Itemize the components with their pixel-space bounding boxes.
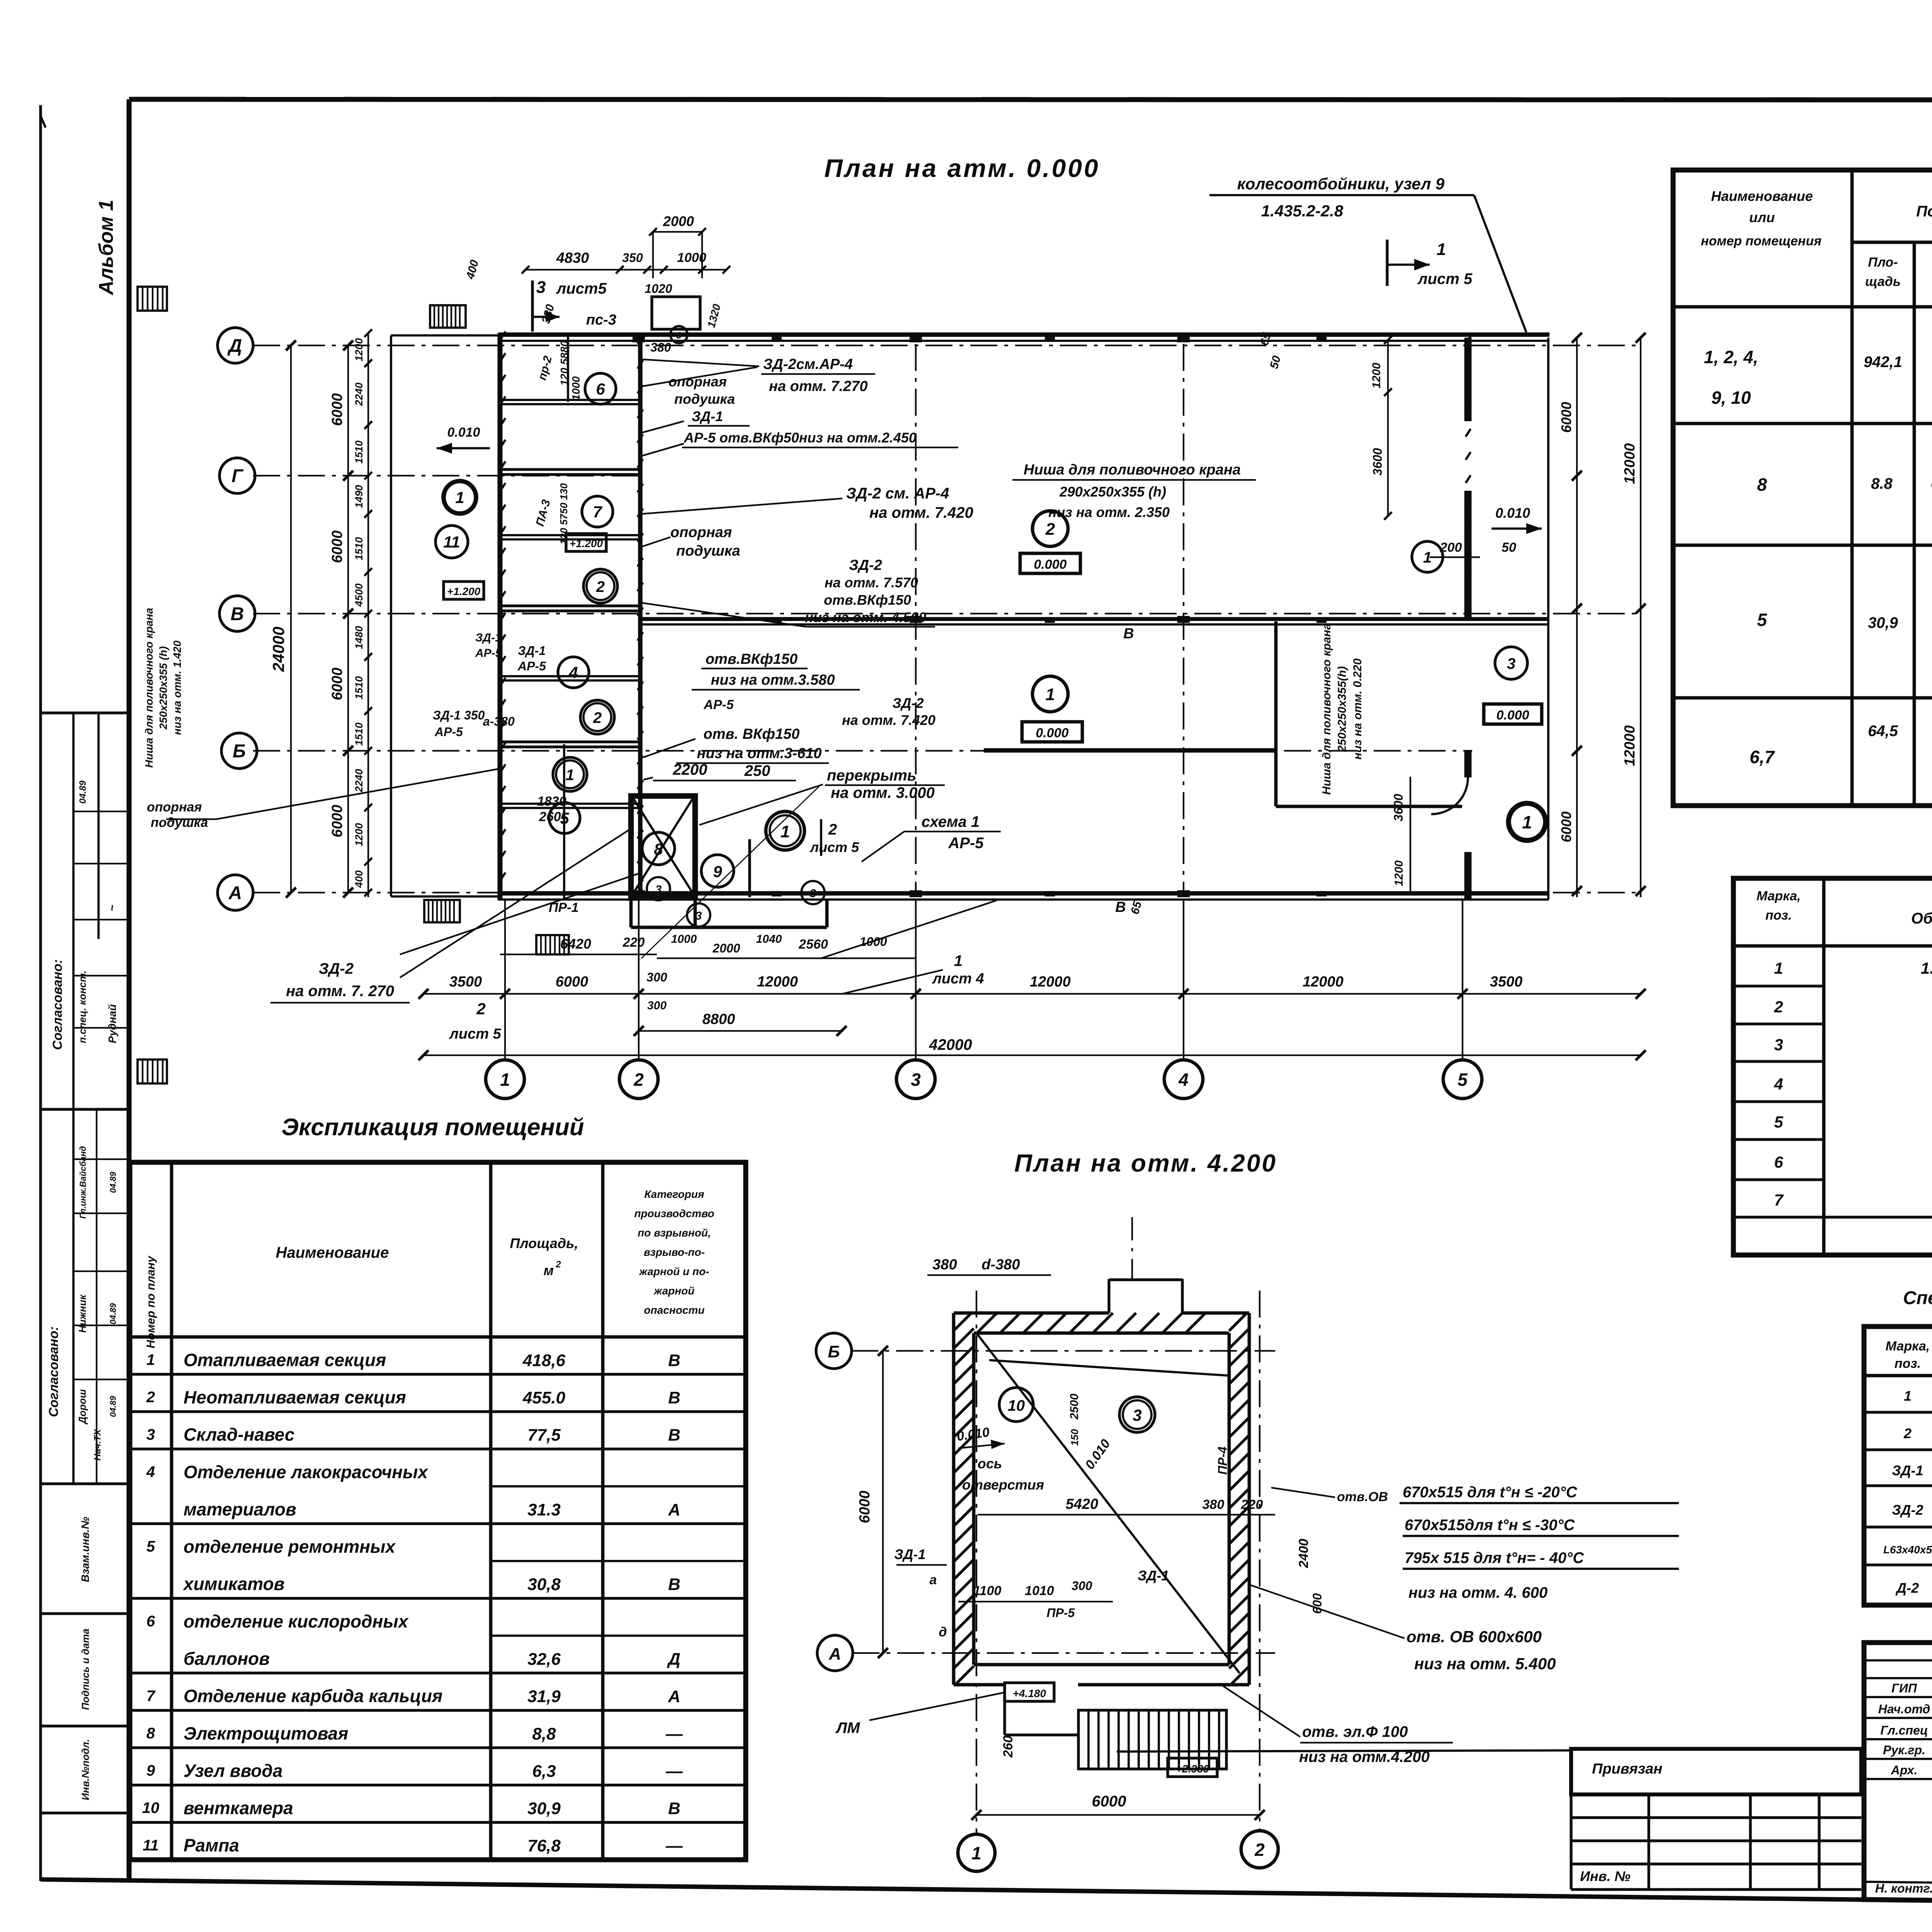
svg-text:670х515для t°н ≤ -30°С: 670х515для t°н ≤ -30°С	[1405, 1517, 1575, 1534]
svg-text:1000: 1000	[671, 933, 697, 946]
vedomost header lines	[1852, 241, 1932, 244]
svg-text:жарной: жарной	[653, 1285, 695, 1297]
svg-text:1510: 1510	[353, 537, 365, 560]
room circle 3 with 0.000	[1495, 647, 1527, 679]
svg-text:Площадь,: Площадь,	[510, 1235, 578, 1251]
monorail mark	[652, 297, 700, 329]
svg-text:9: 9	[146, 1762, 155, 1779]
svg-text:250: 250	[744, 762, 770, 779]
svg-text:Ниша для поливочного крана: Ниша для поливочного крана	[1320, 623, 1333, 795]
svg-text:Экспликация помещений: Экспликация помещений	[281, 1114, 584, 1141]
svg-text:Нач.ТХ: Нач.ТХ	[92, 1429, 103, 1461]
svg-text:7: 7	[146, 1687, 156, 1704]
svg-text:1510: 1510	[353, 723, 365, 746]
annex lines room 9	[748, 839, 751, 897]
leader diagonals	[400, 873, 639, 954]
svg-text:418,6: 418,6	[522, 1351, 566, 1370]
svg-text:Инв.№подл.: Инв.№подл.	[80, 1739, 91, 1800]
svg-text:отв. эл.Ф 100: отв. эл.Ф 100	[1302, 1723, 1408, 1740]
svg-text:План на отм. 4.200: План на отм. 4.200	[1014, 1149, 1277, 1177]
svg-text:ПР-5: ПР-5	[1047, 1606, 1075, 1620]
svg-text:ЗД-1: ЗД-1	[1892, 1463, 1923, 1478]
svg-text:32,6: 32,6	[527, 1650, 561, 1669]
svg-text:Инв. №: Инв. №	[1580, 1868, 1631, 1884]
svg-text:ЗД-1: ЗД-1	[475, 631, 502, 644]
svg-text:1: 1	[566, 767, 574, 784]
svg-text:6000: 6000	[1558, 811, 1574, 842]
wall top outer	[498, 332, 1549, 337]
grid circles left	[218, 328, 253, 363]
svg-text:3: 3	[1774, 1036, 1783, 1054]
plan42 axis lines	[851, 1350, 1275, 1352]
svg-text:опасности: опасности	[644, 1304, 705, 1316]
svg-text:отв.ВКф150: отв.ВКф150	[706, 651, 798, 667]
svg-text:Рук.гр.: Рук.гр.	[1883, 1743, 1925, 1757]
svg-text:производство: производство	[634, 1207, 714, 1219]
svg-text:120 5750 130: 120 5750 130	[558, 483, 570, 545]
svg-text:150: 150	[1069, 1429, 1080, 1446]
svg-text:отв.ВКф150: отв.ВКф150	[824, 592, 911, 608]
svg-text:6000: 6000	[1092, 1793, 1126, 1810]
svg-text:1: 1	[455, 488, 464, 507]
svg-text:В: В	[231, 604, 244, 624]
svg-text:6000: 6000	[329, 531, 345, 563]
svg-text:Пло-: Пло-	[1868, 255, 1898, 270]
sheet frame	[129, 99, 1932, 100]
svg-text:—: —	[665, 1837, 683, 1855]
svg-text:290х250х355 (h): 290х250х355 (h)	[1059, 484, 1166, 500]
svg-text:Узел ввода: Узел ввода	[184, 1760, 282, 1781]
axis bottom circles	[486, 1060, 524, 1099]
vedomost row lines	[1673, 422, 1932, 425]
svg-text:Гл.спец: Гл.спец	[1880, 1723, 1928, 1737]
svg-text:12000: 12000	[1622, 443, 1638, 484]
svg-text:250х250х355(h): 250х250х355(h)	[1336, 666, 1349, 752]
svg-text:ЗД-2: ЗД-2	[1892, 1502, 1923, 1518]
svg-text:Марка,: Марка,	[1757, 889, 1801, 903]
svg-text:1100: 1100	[973, 1583, 1001, 1598]
svg-text:380: 380	[1202, 1497, 1225, 1512]
svg-text:400: 400	[353, 870, 365, 888]
svg-text:А: А	[228, 883, 242, 903]
wall right edge thin	[1547, 338, 1549, 900]
svg-text:В: В	[668, 1575, 680, 1594]
svg-text:1: 1	[1774, 959, 1783, 977]
svg-text:220: 220	[1241, 1497, 1263, 1512]
svg-text:Подпись и дата: Подпись и дата	[80, 1629, 91, 1710]
axis verticals to circles	[504, 900, 506, 1059]
svg-text:2000: 2000	[712, 941, 740, 955]
svg-text:2: 2	[1045, 520, 1055, 539]
svg-text:Гл.инж.Вайсбанд: Гл.инж.Вайсбанд	[78, 1146, 88, 1219]
svg-text:7: 7	[1774, 1191, 1784, 1209]
svg-text:Нижник: Нижник	[77, 1294, 88, 1333]
svg-text:отв. ОВ 600х600: отв. ОВ 600х600	[1406, 1628, 1542, 1646]
svg-text:50: 50	[1502, 540, 1516, 555]
svg-text:04.89: 04.89	[108, 1303, 118, 1325]
svg-text:А: А	[828, 1645, 841, 1663]
svg-text:Потолок: Потолок	[1916, 203, 1932, 220]
svg-text:химикатов: химикатов	[182, 1574, 284, 1594]
svg-text:отделение ремонтных: отделение ремонтных	[184, 1537, 396, 1557]
svg-text:2200: 2200	[673, 761, 707, 778]
svg-text:1200: 1200	[353, 338, 365, 361]
svg-text:ЗД-1: ЗД-1	[692, 408, 723, 424]
hall room circle 1 with 0.000	[1032, 676, 1068, 712]
svg-text:отв.ОВ: отв.ОВ	[1337, 1490, 1388, 1504]
svg-text:низ на отм.3.580: низ на отм.3.580	[711, 672, 835, 688]
small circle 3 on wall	[670, 326, 687, 343]
svg-text:3600: 3600	[1371, 448, 1384, 475]
svg-text:Рампа: Рампа	[184, 1835, 239, 1855]
svg-text:ЗД-2: ЗД-2	[319, 960, 354, 977]
svg-text:0.000: 0.000	[1036, 726, 1068, 740]
inv grid	[1571, 1816, 1861, 1819]
svg-text:30,9: 30,9	[1868, 614, 1898, 631]
svg-text:1: 1	[971, 1843, 981, 1863]
privyazan box	[1571, 1749, 1861, 1794]
svg-text:на отм. 3.000: на отм. 3.000	[831, 784, 935, 801]
stairs hatch bottom-left	[424, 900, 460, 922]
svg-text:м: м	[544, 1262, 554, 1278]
svg-text:баллонов: баллонов	[184, 1649, 270, 1669]
plan42 wall hatching	[954, 1313, 971, 1331]
svg-text:на отм. 7.270: на отм. 7.270	[769, 378, 867, 395]
svg-text:0.000: 0.000	[1496, 708, 1529, 723]
svg-text:04.89: 04.89	[108, 1396, 118, 1417]
svg-text:600: 600	[1310, 1593, 1324, 1614]
svg-text:12000: 12000	[1303, 974, 1344, 990]
svg-text:4: 4	[1774, 1075, 1783, 1093]
svg-text:2: 2	[476, 1000, 485, 1018]
svg-text:отделение кислородных: отделение кислородных	[184, 1611, 409, 1631]
svg-text:6,7: 6,7	[1750, 747, 1775, 767]
room circle 1 right upper	[1412, 541, 1443, 572]
svg-text:8: 8	[654, 840, 663, 858]
svg-text:300: 300	[646, 970, 667, 984]
svg-text:ЗД-2: ЗД-2	[892, 695, 923, 711]
svg-text:—: —	[665, 1762, 683, 1781]
hatch box far left top	[138, 287, 167, 311]
svg-text:Б: Б	[233, 741, 246, 762]
svg-text:3600: 3600	[1391, 794, 1405, 821]
svg-text:64,5: 64,5	[1868, 723, 1898, 740]
svg-text:10: 10	[142, 1799, 160, 1816]
svg-text:2: 2	[146, 1389, 155, 1406]
ramp strip outline	[390, 335, 392, 896]
stairs hatch top-left	[430, 305, 466, 328]
svg-text:9: 9	[713, 862, 722, 881]
room circles in left block	[585, 373, 616, 404]
svg-text:942,1: 942,1	[1864, 354, 1902, 371]
svg-text:120 5880: 120 5880	[558, 340, 570, 386]
svg-text:3: 3	[676, 330, 682, 341]
section mark 1 list5 right	[1386, 240, 1388, 286]
svg-text:11: 11	[143, 1837, 159, 1854]
svg-text:3500: 3500	[1490, 974, 1523, 990]
svg-text:опорная: опорная	[147, 800, 202, 815]
svg-text:1.435.2-2.8: 1.435.2-2.8	[1261, 202, 1344, 220]
svg-text:24000: 24000	[269, 627, 287, 672]
left dimension chain 6000s	[347, 345, 349, 893]
svg-text:План на атм. 0.000: План на атм. 0.000	[824, 154, 1100, 182]
svg-text:Согласовано:: Согласовано:	[46, 1327, 61, 1417]
svg-text:лист 5: лист 5	[449, 1026, 501, 1042]
wall left outer	[498, 333, 503, 900]
svg-text:5420: 5420	[1066, 1496, 1099, 1512]
svg-text:1: 1	[781, 822, 790, 841]
svg-text:АР-5: АР-5	[475, 647, 502, 660]
svg-text:ГИП: ГИП	[1891, 1681, 1917, 1695]
svg-text:1.038.1-1.1: 1.038.1-1.1	[1921, 959, 1932, 977]
svg-text:Г: Г	[231, 466, 244, 486]
svg-text:Дорош: Дорош	[77, 1389, 88, 1425]
svg-text:6000: 6000	[1558, 402, 1574, 433]
svg-text:ЗД-1 350: ЗД-1 350	[433, 708, 485, 722]
svg-text:2: 2	[1903, 1425, 1912, 1441]
svg-text:В: В	[1123, 626, 1134, 642]
svg-text:В: В	[668, 1351, 680, 1370]
svg-text:300: 300	[647, 999, 667, 1012]
svg-text:колесоотбойники, узел 9: колесоотбойники, узел 9	[1237, 175, 1445, 193]
svg-text:10: 10	[1008, 1397, 1025, 1414]
svg-text:низ на отм. 1.420: низ на отм. 1.420	[171, 640, 183, 735]
top dims over block	[526, 269, 726, 270]
title block sig rows	[1864, 1659, 1932, 1662]
column marks on walls	[633, 335, 645, 342]
grid axis lines horizontal	[253, 345, 1641, 346]
svg-text:лист 5: лист 5	[810, 839, 859, 855]
svg-text:6: 6	[596, 380, 605, 398]
svg-text:260: 260	[539, 810, 561, 824]
svg-text:номер помещения: номер помещения	[1701, 234, 1821, 248]
svg-text:250х250х355 (h): 250х250х355 (h)	[157, 646, 169, 730]
sub-room walls lower right	[1274, 621, 1278, 806]
svg-text:8800: 8800	[702, 1011, 735, 1027]
level boxes +1.200	[444, 582, 484, 599]
svg-text:1: 1	[954, 952, 963, 969]
svg-text:12000: 12000	[1030, 974, 1071, 990]
svg-text:1480: 1480	[353, 626, 365, 649]
svg-text:2: 2	[555, 1259, 561, 1270]
plan42 level boxes	[1005, 1683, 1054, 1701]
svg-text:3: 3	[911, 1070, 921, 1090]
svg-text:1: 1	[500, 1070, 510, 1090]
svg-text:1830: 1830	[537, 794, 566, 809]
svg-text:3: 3	[655, 883, 662, 896]
svg-text:6000: 6000	[556, 974, 588, 990]
svg-text:А: А	[668, 1500, 680, 1519]
svg-text:низ на отм. 4. 600: низ на отм. 4. 600	[1408, 1584, 1548, 1601]
svg-text:5: 5	[560, 809, 569, 827]
svg-text:ЗД-1: ЗД-1	[518, 644, 546, 658]
svg-text:300: 300	[1071, 1579, 1092, 1593]
svg-text:+1.200: +1.200	[570, 537, 603, 549]
plan42 interior	[976, 1333, 1240, 1673]
svg-text:низ на отм. 0.220: низ на отм. 0.220	[1351, 658, 1364, 760]
svg-text:на отм. 7.420: на отм. 7.420	[842, 712, 935, 728]
svg-text:5: 5	[146, 1538, 155, 1555]
svg-text:04.89: 04.89	[78, 780, 88, 804]
svg-text:ЗД-1: ЗД-1	[894, 1546, 925, 1562]
svg-text:Наименование: Наименование	[276, 1244, 389, 1261]
svg-text:6,3: 6,3	[532, 1762, 556, 1781]
svg-text:В: В	[668, 1388, 680, 1407]
bottom dim chain 8800	[639, 1030, 842, 1032]
svg-text:31,9: 31,9	[527, 1687, 561, 1706]
svg-text:2: 2	[593, 709, 602, 726]
svg-text:7: 7	[593, 503, 602, 521]
svg-text:Н. контг.: Н. контг.	[1875, 1881, 1932, 1895]
svg-text:6: 6	[1774, 1153, 1783, 1171]
svg-text:Арх.: Арх.	[1891, 1763, 1918, 1777]
svg-text:Спецификация сетчатых перегоро: Спецификация сетчатых перегородок и мета…	[1903, 1288, 1932, 1308]
svg-text:ось: ось	[978, 1456, 1002, 1471]
svg-text:Неотапливаемая секция: Неотапливаемая секция	[184, 1387, 406, 1407]
svg-text:3: 3	[1133, 1406, 1141, 1424]
svg-text:Д: Д	[227, 336, 242, 356]
svg-text:Склад-навес: Склад-навес	[184, 1425, 294, 1445]
svg-text:—: —	[665, 1725, 683, 1743]
svg-text:поз.: поз.	[1895, 1356, 1921, 1371]
svg-text:Б: Б	[828, 1342, 840, 1361]
wall poche hatches right wall	[1466, 336, 1471, 344]
svg-text:0.010: 0.010	[447, 425, 480, 440]
svg-text:лист 4: лист 4	[932, 971, 984, 987]
svg-text:п.спец. конст.: п.спец. конст.	[77, 971, 88, 1043]
svg-text:материалов: материалов	[184, 1499, 296, 1519]
svg-text:1: 1	[1437, 240, 1446, 259]
svg-text:2240: 2240	[353, 383, 365, 406]
svg-text:2560: 2560	[798, 937, 828, 952]
svg-text:76,8: 76,8	[527, 1837, 561, 1855]
svg-text:3: 3	[146, 1426, 155, 1443]
svg-text:30,9: 30,9	[527, 1799, 561, 1818]
svg-text:d-380: d-380	[981, 1257, 1020, 1273]
svg-text:2: 2	[828, 821, 837, 838]
svg-text:1000: 1000	[570, 376, 582, 400]
left detail dimension chain	[367, 333, 369, 897]
svg-text:АР-5: АР-5	[517, 659, 546, 673]
plan42 room circles	[999, 1388, 1033, 1422]
peremychki rows	[1733, 985, 1824, 987]
svg-text:АР-5: АР-5	[434, 725, 463, 739]
svg-text:380: 380	[650, 340, 671, 354]
bottom dim chain 42000	[423, 1054, 1641, 1056]
circles 8 and 9	[642, 832, 675, 865]
svg-text:6: 6	[146, 1613, 155, 1630]
svg-text:2500: 2500	[1068, 1393, 1081, 1420]
svg-text:перекрыть: перекрыть	[827, 767, 917, 784]
svg-text:1: 1	[146, 1351, 155, 1368]
svg-text:схема 1: схема 1	[922, 813, 980, 830]
block partitions	[500, 468, 640, 471]
svg-text:Марка,: Марка,	[1886, 1339, 1930, 1354]
svg-text:3: 3	[696, 910, 702, 922]
svg-text:Категория: Категория	[645, 1188, 704, 1200]
svg-text:ЛМ: ЛМ	[835, 1719, 861, 1736]
svg-text:3: 3	[536, 278, 546, 297]
svg-text:31.3: 31.3	[527, 1500, 561, 1519]
svg-text:+4.180: +4.180	[1013, 1687, 1046, 1699]
svg-text:1040: 1040	[756, 933, 782, 946]
wall poche hatches left wall	[500, 332, 505, 340]
svg-text:по взрывной,: по взрывной,	[638, 1227, 711, 1239]
svg-text:5: 5	[1757, 610, 1767, 630]
svg-text:АР-5: АР-5	[948, 835, 984, 852]
svg-text:4: 4	[146, 1463, 155, 1480]
svg-text:щадь: щадь	[1865, 274, 1901, 289]
plan42 top notch	[1107, 1279, 1110, 1313]
room circle 1 bottom right bold	[1509, 803, 1546, 840]
svg-text:лист 5: лист 5	[1417, 270, 1473, 287]
big double circle 1 near annex	[766, 811, 804, 850]
svg-text:220: 220	[622, 935, 645, 950]
svg-text:42000: 42000	[929, 1036, 972, 1053]
svg-text:1020: 1020	[645, 282, 672, 296]
svg-text:низ на отм.3-610: низ на отм.3-610	[697, 745, 821, 762]
svg-text:4: 4	[1178, 1070, 1189, 1090]
svg-text:Взам.инв.№: Взам.инв.№	[79, 1517, 91, 1582]
svg-text:6000: 6000	[329, 805, 345, 838]
small section circles 3	[647, 877, 670, 900]
svg-text:отв. ВКф150: отв. ВКф150	[704, 726, 800, 742]
svg-text:350: 350	[622, 251, 643, 265]
svg-text:8: 8	[146, 1725, 155, 1742]
svg-text:или: или	[1749, 209, 1775, 225]
svg-text:АР-5: АР-5	[703, 697, 734, 712]
svg-text:Привязан: Привязан	[1592, 1761, 1662, 1777]
hatch box far left bottom	[138, 1060, 167, 1083]
svg-text:2400: 2400	[1296, 1539, 1311, 1568]
svg-text:взрыво-по-: взрыво-по-	[644, 1246, 705, 1258]
svg-text:Наименование: Наименование	[1711, 188, 1813, 204]
svg-text:ЗД-2 см. АР-4: ЗД-2 см. АР-4	[846, 485, 949, 502]
left stamp strip	[41, 711, 128, 714]
svg-text:30,8: 30,8	[527, 1575, 561, 1594]
setchatye rows	[1864, 1411, 1932, 1413]
svg-text:2000: 2000	[663, 213, 694, 229]
axis dash verticals through halls	[915, 344, 917, 893]
svg-text:пс-3: пс-3	[586, 312, 616, 328]
svg-text:455.0: 455.0	[522, 1388, 566, 1407]
hall room circle 2 with 0.000	[1032, 511, 1068, 546]
plan42 grid circles	[816, 1333, 852, 1369]
svg-text:Д-2: Д-2	[1895, 1580, 1919, 1596]
svg-text:3: 3	[1507, 655, 1515, 672]
svg-text:д: д	[939, 1625, 947, 1639]
svg-text:5: 5	[1774, 1113, 1783, 1131]
svg-text:~: ~	[106, 905, 119, 912]
svg-text:поз.: поз.	[1765, 908, 1792, 923]
svg-text:260: 260	[1001, 1736, 1015, 1758]
svg-text:9, 10: 9, 10	[1711, 388, 1751, 408]
svg-text:низ на отм. 5.400: низ на отм. 5.400	[1414, 1655, 1556, 1673]
svg-text:а: а	[930, 1573, 937, 1587]
svg-text:Отапливаемая секция: Отапливаемая секция	[184, 1350, 386, 1370]
svg-text:Отделение лакокрасочных: Отделение лакокрасочных	[184, 1462, 429, 1482]
svg-text:опорная: опорная	[668, 374, 727, 389]
svg-text:1200: 1200	[1393, 860, 1405, 886]
svg-text:200: 200	[1440, 540, 1462, 555]
plan42 walls outer	[952, 1313, 956, 1685]
svg-text:подушка: подушка	[674, 391, 735, 407]
svg-text:6000: 6000	[857, 1491, 873, 1524]
svg-text:6000: 6000	[329, 393, 345, 426]
small hatch near PR-1	[536, 935, 569, 954]
svg-text:Отделение карбида кальция: Отделение карбида кальция	[184, 1686, 442, 1706]
svg-text:6420: 6420	[560, 936, 591, 952]
